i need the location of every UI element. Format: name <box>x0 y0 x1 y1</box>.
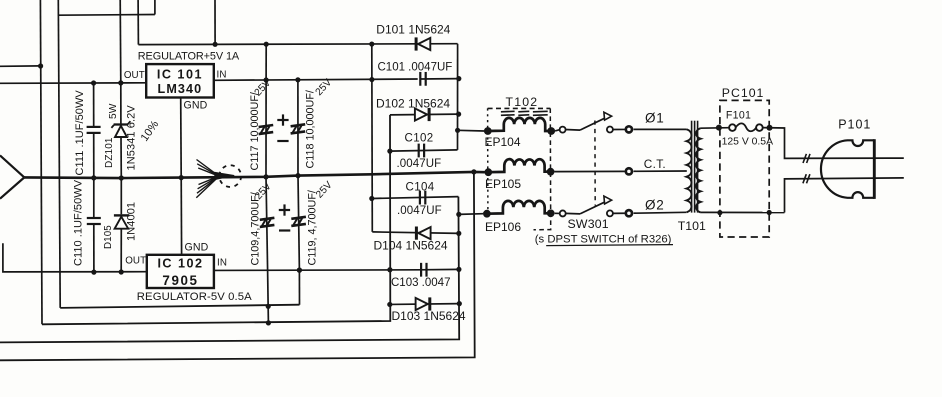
svg-text:1N5341 6.2V: 1N5341 6.2V <box>126 105 138 171</box>
capacitor C102 .0047UF <box>390 150 458 151</box>
node C111 bottom on ground rail <box>91 175 96 180</box>
harness arrow fan on ground rail <box>197 160 220 177</box>
T102 core marks <box>501 110 515 113</box>
svg-text:REGULATOR-5V 0.5A: REGULATOR-5V 0.5A <box>137 291 252 303</box>
zener diode DZ101 1N5341 <box>120 83 122 125</box>
inductor EP105 <box>488 159 550 172</box>
svg-text:SW301: SW301 <box>568 217 609 231</box>
diode D102 1N5624 <box>390 113 459 116</box>
node junction ladder left on D101 rail <box>369 41 374 46</box>
svg-text:C118 10,000UF/: C118 10,000UF/ <box>305 90 317 168</box>
svg-text:1N4001: 1N4001 <box>126 202 138 241</box>
svg-text:IN: IN <box>217 70 227 81</box>
svg-text:D101 1N5624: D101 1N5624 <box>376 23 450 37</box>
wire main ground rail <box>24 172 484 178</box>
transformer T101 primary winding <box>687 129 692 212</box>
svg-text:IC 102: IC 102 <box>157 257 203 271</box>
capacitor C103 .0047 <box>419 268 459 270</box>
svg-text:GND: GND <box>185 241 209 253</box>
svg-text:C111 .1UF/50WV: C111 .1UF/50WV <box>74 90 86 176</box>
op-amp IC101 box LM340 <box>146 64 214 97</box>
wire ladder vertical R3 (x~474) ground rail to bottom bus <box>0 172 475 360</box>
svg-text:EP104: EP104 <box>485 135 521 149</box>
node junction C117 branch on D101 rail <box>264 42 269 47</box>
svg-text:IN: IN <box>217 257 227 268</box>
wire vertical x~215 from top to D101 rail <box>214 0 216 44</box>
capacitor C109 4,700UF/25V <box>266 177 268 270</box>
capacitor C101 .0047UF <box>420 78 458 80</box>
svg-text:P101: P101 <box>838 118 871 132</box>
svg-text:EP106: EP106 <box>485 220 521 234</box>
switch SW301 pole 1 contact circles <box>555 130 560 131</box>
switch blade pole 2 <box>580 201 607 214</box>
wire vertical bus B (x~58) from top edge down to lower line <box>58 0 60 308</box>
diode D105 1N4001 <box>120 178 122 214</box>
svg-text:IC 101: IC 101 <box>157 67 203 81</box>
connector pin phi1 <box>613 128 625 130</box>
wire IN rail IC101 to ladder (C101 row) <box>214 79 418 80</box>
node R3 on ground rail <box>471 169 476 174</box>
dashed circle around arrow <box>219 165 241 187</box>
T102 dashed box <box>488 107 551 109</box>
wire C.T. row <box>555 170 625 172</box>
svg-text:EP105: EP105 <box>485 177 521 191</box>
wire bottom to plug lower <box>785 178 904 213</box>
wire vertical bus A (x~41) from top edge to bottom bus <box>40 0 42 324</box>
svg-text:125 V 0.5A: 125 V 0.5A <box>722 137 773 148</box>
wire secondary top to fuse <box>701 127 730 130</box>
wire ladder vertical R2 (x~458.9) C104 row to bus <box>0 197 459 343</box>
wire -5V OUT rail left stub <box>3 243 147 272</box>
switch blade pole 1 <box>580 117 607 130</box>
minus sign C109/C119 <box>279 229 290 231</box>
node junction bus A / stub <box>38 63 43 68</box>
svg-text:C110 .1UF/50WV: C110 .1UF/50WV <box>72 179 84 266</box>
svg-text:D102 1N5624: D102 1N5624 <box>376 97 450 111</box>
wire +5V OUT rail from left edge to IC101 <box>0 82 146 85</box>
wire ladder vertical L2 (x~390) D102 row to bottom bus <box>42 115 390 324</box>
wire GND lead IC102 up to ground rail <box>180 178 182 255</box>
capacitor C104 .0047UF <box>372 197 459 199</box>
cord break marks lower <box>803 174 806 183</box>
svg-text:C.T.: C.T. <box>644 157 666 171</box>
wire line A (lower -V link) <box>60 305 299 308</box>
node DZ101 top on OUT rail <box>118 80 123 85</box>
capacitor C118 10,000UF/25V <box>297 80 299 176</box>
wire ladder vertical R1 (x~457.6) D101 row to C102 row <box>457 44 459 150</box>
wire fuse to plug upper <box>763 128 904 159</box>
node C111 top on OUT rail <box>91 80 96 85</box>
svg-text:T102: T102 <box>506 95 539 109</box>
svg-text:OUT: OUT <box>125 255 146 266</box>
wire vertical x~120 from top (becomes DZ101 branch) <box>119 0 122 83</box>
capacitor C119 4,700UF/25V <box>298 176 299 271</box>
svg-text:.0047UF: .0047UF <box>397 158 442 170</box>
svg-text:.0047UF: .0047UF <box>397 205 442 217</box>
svg-text:C119, 4,700UF/: C119, 4,700UF/ <box>307 190 319 265</box>
svg-text:T101: T101 <box>678 219 706 233</box>
wire stub left edge to node on bus A <box>0 65 40 67</box>
svg-text:C104: C104 <box>406 182 435 194</box>
transformer T101 core <box>691 121 693 213</box>
node GND leads on ground rail <box>179 175 184 180</box>
svg-text:GND: GND <box>184 99 208 111</box>
capacitor C111 .1UF/50WV <box>93 83 95 127</box>
switch mechanical link dashed <box>594 121 596 206</box>
node cord pins top <box>716 125 722 131</box>
inductor EP106 <box>459 213 483 216</box>
capacitor C110 .1UF/50WV <box>93 178 95 218</box>
plug P101 body <box>821 140 874 198</box>
svg-text:OUT: OUT <box>124 70 145 81</box>
svg-text:C117 10,000UF/: C117 10,000UF/ <box>249 92 261 170</box>
wire top horizontal y~15 <box>58 14 155 17</box>
connector pin C.T. <box>626 168 632 174</box>
wire IC102 IN rail to C103 row <box>214 269 419 272</box>
plus sign C109/C119 <box>279 209 290 211</box>
svg-text:Ø1: Ø1 <box>645 111 664 126</box>
svg-text:C109,4,700UF/: C109,4,700UF/ <box>250 192 262 265</box>
svg-text:D105: D105 <box>103 225 114 249</box>
svg-text:10%: 10% <box>139 118 162 143</box>
plus sign C117/C118 <box>277 119 288 121</box>
fuse F101 <box>729 124 736 131</box>
svg-text:F101: F101 <box>726 110 751 122</box>
inductor EP104 <box>458 129 484 132</box>
node cord pins bottom <box>717 210 722 215</box>
minus sign C117/C118 <box>277 140 288 142</box>
svg-text:(s DPST SWITCH of R326): (s DPST SWITCH of R326) <box>535 234 672 246</box>
node DZ101 bottom on ground rail <box>119 175 124 180</box>
svg-text:Ø2: Ø2 <box>645 197 664 212</box>
wire vertical x~155 top <box>154 0 156 15</box>
connector chevron at left edge <box>0 155 24 198</box>
wire phi2 to T101 <box>634 211 687 214</box>
connector pin phi2 <box>613 212 625 214</box>
switch SW301 pole 2 contact circles <box>555 212 560 214</box>
svg-text:C101 .0047UF: C101 .0047UF <box>378 61 453 73</box>
node junction x215 on D101 rail <box>213 42 218 47</box>
svg-text:REGULATOR+5V 1A: REGULATOR+5V 1A <box>138 51 240 63</box>
transformer T101 secondary winding <box>696 128 701 212</box>
svg-text:C102: C102 <box>405 133 434 145</box>
svg-text:5W: 5W <box>108 103 119 119</box>
wire phi1 to T101 <box>634 128 687 130</box>
cord break marks upper <box>803 154 806 163</box>
diode D101 1N5624 <box>418 38 430 50</box>
op-amp IC102 box 7905 <box>147 255 214 288</box>
svg-text:7905: 7905 <box>162 273 198 288</box>
wire ladder vertical L1 (x~372) D101 row to D104 row <box>371 44 374 232</box>
wire secondary bottom row <box>701 211 785 213</box>
diode D104 1N5624 <box>372 232 459 234</box>
wire vertical x~138 feeding D101 rail <box>137 0 139 45</box>
svg-text:DZ101: DZ101 <box>104 137 115 168</box>
PC101 dashed box <box>720 100 769 237</box>
svg-text:PC101: PC101 <box>722 86 765 100</box>
capacitor C117 10,000UF/25V <box>265 44 267 80</box>
diode D103 1N5624 <box>390 303 460 306</box>
svg-text:D104 1N5624: D104 1N5624 <box>374 239 448 253</box>
wire D101 feed rail y~44 <box>138 43 457 46</box>
svg-text:D103 1N5624: D103 1N5624 <box>392 309 466 323</box>
svg-text:C103 .0047: C103 .0047 <box>391 277 450 289</box>
wire GND lead IC101 down to ground rail <box>180 98 183 178</box>
svg-text:LM340: LM340 <box>158 82 203 96</box>
